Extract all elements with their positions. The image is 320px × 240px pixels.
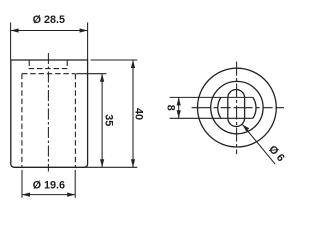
dimension line dia28.5 — [11, 30, 88, 32]
hidden line cavity left — [21, 74, 23, 167]
extension line dia28.5 left — [10, 23, 12, 60]
arrow 35 up — [100, 74, 104, 82]
middle circle dia19.6 top view — [211, 81, 263, 133]
double-D left arc — [218, 97, 221, 118]
flat bottom line / extension 8 — [170, 117, 253, 119]
arrow dia6 leader — [242, 125, 249, 132]
hidden line cavity top — [22, 73, 76, 75]
outer circle top view — [198, 68, 277, 147]
svg-text:8: 8 — [165, 105, 177, 111]
extension line 40 bottom — [84, 166, 137, 168]
arrow 8 up — [177, 97, 181, 105]
extension line 40 top — [91, 59, 138, 61]
hidden line cavity right — [74, 74, 76, 167]
arrow dia19.6 left — [22, 193, 30, 197]
svg-text:Ø 28.5: Ø 28.5 — [33, 14, 65, 26]
hidden line slot bottom — [29, 68, 68, 70]
slot stadium — [228, 90, 245, 127]
front view outline — [11, 60, 88, 167]
hidden line slot left — [28, 61, 30, 69]
arrow 40 down — [131, 159, 135, 167]
dimension line 40 — [132, 60, 134, 167]
extension line dia19.6 left — [21, 170, 23, 198]
double-D right arc — [253, 97, 256, 118]
centerline top view horizontal — [192, 107, 284, 109]
dimension line 8 — [178, 97, 180, 118]
extension line dia19.6 right — [74, 170, 76, 198]
arrow 40 up — [131, 60, 135, 68]
svg-text:40: 40 — [133, 108, 145, 120]
svg-text:35: 35 — [102, 114, 114, 126]
arrow dia28.5 left — [11, 28, 19, 32]
hidden line slot right — [66, 61, 68, 69]
dimension line 35 — [101, 74, 103, 168]
arrow 8 down — [177, 110, 181, 118]
dimension line dia19.6 — [22, 194, 75, 196]
centerline top view vertical — [236, 62, 238, 155]
leader line dia6 — [242, 125, 275, 165]
flat top line / extension 8 — [170, 96, 253, 98]
centerline front vertical — [47, 53, 49, 172]
arrow 35 down — [100, 159, 104, 167]
extension line dia28.5 right — [87, 23, 89, 60]
extension line 35 top — [76, 73, 106, 75]
arrow dia28.5 right — [80, 28, 88, 32]
arrow dia19.6 right — [67, 193, 75, 197]
svg-text:Ø 19.6: Ø 19.6 — [33, 179, 65, 191]
